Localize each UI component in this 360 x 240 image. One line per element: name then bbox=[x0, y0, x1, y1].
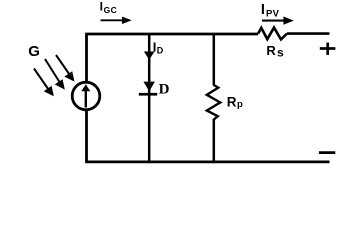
svg-text:p: p bbox=[237, 99, 243, 110]
svg-text:I: I bbox=[100, 0, 103, 14]
arrow for I_GC current direction bbox=[101, 17, 132, 24]
label Rs bbox=[266, 43, 284, 60]
diode D triangle (anode) bbox=[143, 82, 155, 92]
resistor Rs zigzag bbox=[258, 28, 287, 40]
current source internal arrow shaft bbox=[85, 91, 87, 108]
label I_PV bbox=[261, 2, 280, 20]
arrow for I_PV current direction bbox=[262, 17, 294, 25]
diode D current arrowhead (on wire) bbox=[144, 52, 155, 60]
svg-text:D: D bbox=[157, 45, 164, 55]
current source internal arrow head bbox=[81, 84, 90, 91]
label I_D bbox=[153, 39, 164, 55]
resistor Rp zigzag bbox=[207, 85, 220, 120]
light arrow 3 (leftmost) bbox=[34, 69, 54, 97]
current source (photocurrent) circle bbox=[72, 82, 100, 110]
wire: Rp branch vertical lower segment bbox=[213, 119, 216, 162]
+ terminal symbol bbox=[320, 43, 336, 55]
svg-text:R: R bbox=[227, 94, 237, 109]
label Rp bbox=[227, 94, 243, 110]
svg-text:I: I bbox=[261, 2, 265, 18]
svg-text:PV: PV bbox=[266, 8, 280, 19]
light arrow 1 (rightmost) bbox=[56, 55, 75, 82]
wire: top right segment after Rs to + terminal bbox=[287, 32, 330, 35]
svg-text:s: s bbox=[277, 45, 284, 59]
wire: diode branch vertical bbox=[148, 34, 151, 162]
svg-text:R: R bbox=[266, 43, 276, 58]
diode D cathode bar bbox=[139, 93, 157, 96]
wire: bottom rail bbox=[85, 160, 329, 163]
- terminal symbol bbox=[319, 151, 335, 154]
svg-text:D: D bbox=[159, 82, 170, 98]
wire: Rp branch vertical upper segment bbox=[213, 34, 216, 86]
wire: top rail from left corner to Rs bbox=[85, 33, 258, 36]
label I_GC bbox=[100, 0, 118, 15]
svg-text:GC: GC bbox=[104, 5, 118, 15]
wire: left vertical branch (current source branch) bbox=[85, 34, 88, 162]
light arrow 2 (middle) bbox=[45, 59, 65, 90]
svg-text:G: G bbox=[28, 43, 40, 60]
